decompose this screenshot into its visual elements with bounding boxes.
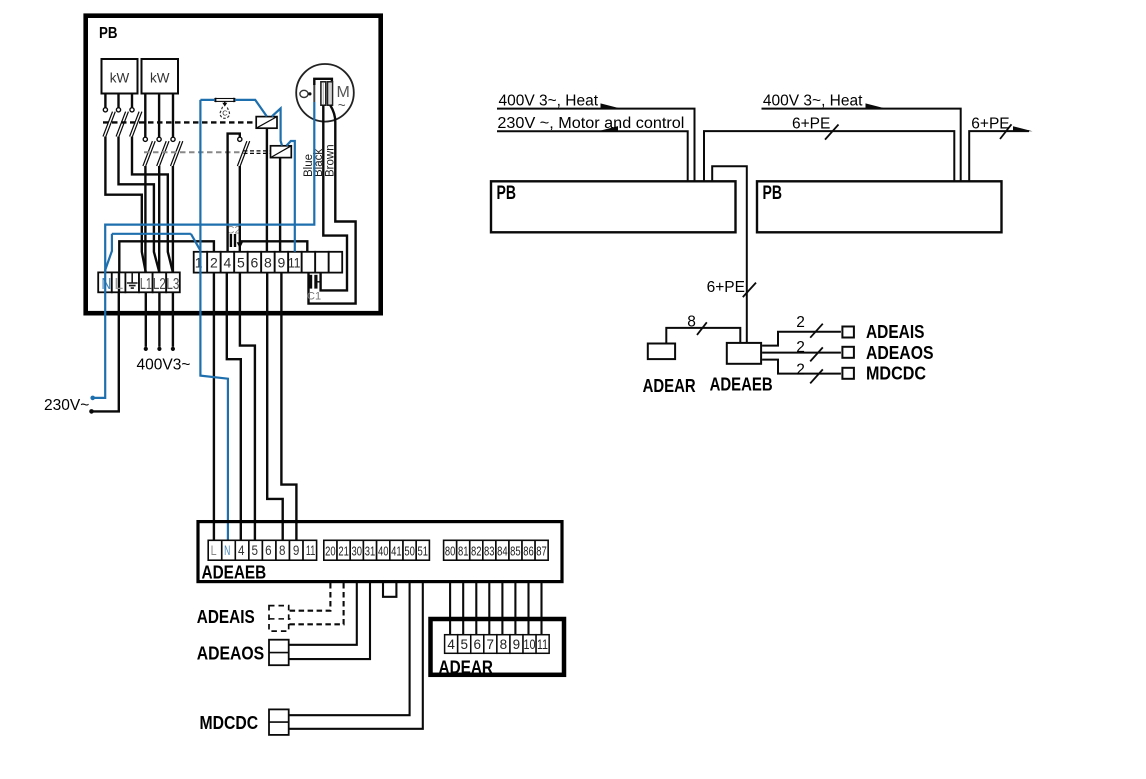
svg-text:6+PE: 6+PE — [707, 279, 745, 296]
svg-text:230V ~, Motor and control: 230V ~, Motor and control — [497, 115, 684, 132]
svg-text:6: 6 — [265, 543, 272, 558]
svg-text:82: 82 — [471, 543, 482, 558]
svg-text:6: 6 — [474, 637, 482, 652]
svg-text:9: 9 — [513, 637, 521, 652]
svg-text:6+PE: 6+PE — [792, 115, 830, 132]
svg-text:51: 51 — [418, 543, 429, 558]
svg-text:400V 3~, Heat: 400V 3~, Heat — [499, 92, 599, 109]
svg-text:6: 6 — [251, 255, 259, 271]
svg-text:C: C — [222, 108, 228, 117]
svg-text:L2: L2 — [153, 276, 166, 293]
svg-text:41: 41 — [391, 543, 402, 558]
svg-text:40: 40 — [378, 543, 389, 558]
svg-text:kW: kW — [110, 70, 130, 85]
svg-text:ADEAEB: ADEAEB — [202, 561, 267, 582]
svg-text:PB: PB — [99, 25, 118, 42]
svg-text:400V 3~, Heat: 400V 3~, Heat — [763, 92, 863, 109]
svg-text:MDCDC: MDCDC — [866, 363, 926, 384]
svg-text:MDCDC: MDCDC — [200, 712, 259, 733]
svg-text:5: 5 — [460, 637, 468, 652]
svg-text:ADEAEB: ADEAEB — [710, 373, 773, 394]
svg-text:ADEAOS: ADEAOS — [197, 642, 264, 663]
svg-text:80: 80 — [445, 543, 456, 558]
svg-text:kW: kW — [150, 70, 170, 85]
svg-text:20: 20 — [325, 543, 336, 558]
svg-text:5: 5 — [252, 543, 259, 558]
svg-text:230V~: 230V~ — [44, 397, 89, 414]
svg-text:86: 86 — [523, 543, 534, 558]
svg-text:50: 50 — [404, 543, 415, 558]
svg-text:11: 11 — [537, 637, 548, 652]
svg-text:N: N — [224, 543, 230, 558]
svg-text:1: 1 — [195, 255, 203, 271]
svg-text:4: 4 — [224, 255, 232, 271]
svg-text:2: 2 — [796, 339, 805, 356]
svg-text:ADEAR: ADEAR — [643, 375, 696, 396]
svg-text:85: 85 — [510, 543, 521, 558]
svg-text:11: 11 — [306, 543, 316, 558]
svg-text:21: 21 — [338, 543, 349, 558]
svg-text:L: L — [114, 276, 123, 293]
svg-text:7: 7 — [487, 637, 495, 652]
svg-text:N: N — [101, 276, 111, 293]
svg-text:PB: PB — [497, 183, 517, 204]
svg-text:ADEAIS: ADEAIS — [197, 606, 255, 627]
svg-text:ADEAR: ADEAR — [439, 657, 494, 678]
svg-text:5: 5 — [237, 255, 245, 271]
svg-text:ADEAIS: ADEAIS — [866, 321, 925, 342]
svg-text:8: 8 — [279, 543, 286, 558]
svg-text:9: 9 — [278, 255, 286, 271]
svg-text:2: 2 — [210, 255, 218, 271]
svg-text:8: 8 — [500, 637, 508, 652]
svg-text:9: 9 — [293, 543, 300, 558]
svg-text:PB: PB — [763, 183, 783, 204]
svg-text:83: 83 — [484, 543, 495, 558]
svg-text:6+PE: 6+PE — [971, 115, 1009, 132]
svg-text:8: 8 — [264, 255, 272, 271]
svg-text:L1: L1 — [140, 276, 152, 293]
svg-text:84: 84 — [497, 543, 508, 558]
svg-text:4: 4 — [238, 543, 245, 558]
svg-text:81: 81 — [458, 543, 469, 558]
svg-text:31: 31 — [365, 543, 376, 558]
svg-text:10: 10 — [524, 637, 536, 652]
svg-text:~: ~ — [338, 98, 346, 113]
svg-text:ADEAOS: ADEAOS — [866, 342, 934, 363]
svg-text:L: L — [211, 543, 217, 558]
svg-text:11: 11 — [288, 255, 301, 271]
svg-text:400V3~: 400V3~ — [137, 356, 191, 373]
svg-text:2: 2 — [796, 314, 805, 331]
svg-text:8: 8 — [687, 313, 696, 330]
svg-text:L3: L3 — [166, 276, 179, 293]
svg-text:4: 4 — [447, 637, 455, 652]
svg-text:2: 2 — [796, 362, 805, 379]
svg-text:30: 30 — [352, 543, 363, 558]
svg-text:87: 87 — [536, 543, 547, 558]
svg-text:C1: C1 — [307, 291, 321, 303]
